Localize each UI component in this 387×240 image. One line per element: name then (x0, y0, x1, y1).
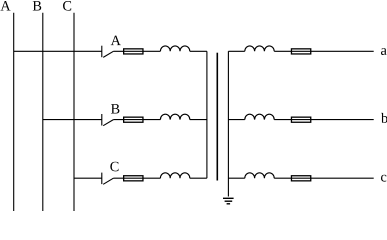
switch A blade (103, 51, 113, 57)
inductor L-b secondary winding (245, 114, 274, 119)
wire: vertical supply bus B (42, 13, 44, 211)
wire: inductor a to terminal (through fuse) (274, 50, 374, 52)
fuse F-a secondary (291, 49, 310, 54)
ground (223, 198, 234, 204)
wire: inductor b to terminal (through fuse) (274, 119, 374, 121)
wire: inductor c to terminal (through fuse) (274, 177, 374, 179)
switch B fixed contact tick (101, 114, 103, 126)
wire: secondary star-point bus (227, 51, 229, 196)
wire: switch C to inductor (through fuse) (113, 177, 160, 179)
switch B label (111, 104, 119, 113)
wire: vertical supply bus A (13, 13, 15, 211)
wire: secondary bus to inductor a (228, 50, 244, 52)
fuse F-A primary (124, 49, 143, 54)
node B supply bus label (33, 1, 41, 10)
wire: switch A to inductor (through fuse) (113, 50, 160, 52)
switch B blade (103, 120, 113, 126)
inductor L-c secondary winding (245, 173, 274, 178)
node a terminal label (381, 48, 387, 55)
wire: primary star-point bus (206, 51, 208, 178)
inductor L-C primary winding (160, 173, 189, 178)
transformer T1 core bar (216, 53, 218, 181)
wire: phase C branch from bus to switch (74, 177, 102, 179)
inductor L-B primary winding (160, 114, 189, 119)
wire: phase A branch from bus to switch (14, 50, 102, 52)
wire: inductor A to primary star point (190, 50, 207, 52)
switch A fixed contact tick (101, 46, 103, 58)
inductor L-A primary winding (160, 46, 189, 51)
wire: secondary bus to inductor b (228, 119, 244, 121)
fuse F-c secondary (291, 176, 310, 181)
wire: switch B to inductor (through fuse) (113, 119, 160, 121)
node A supply bus label (0, 1, 10, 10)
switch C blade (103, 178, 113, 184)
fuse F-C primary (124, 176, 143, 181)
node C supply bus label (63, 1, 71, 11)
node c terminal label (381, 175, 386, 182)
wire: secondary bus to inductor c (228, 177, 244, 179)
inductor L-a secondary winding (245, 46, 274, 51)
wire: inductor C to primary star point (190, 177, 207, 179)
wire: phase B branch from bus to switch (43, 119, 102, 121)
wire: inductor B to primary star point (190, 119, 207, 121)
switch C fixed contact tick (101, 173, 103, 185)
switch C label (110, 162, 118, 172)
switch A label (111, 36, 121, 45)
fuse F-b secondary (291, 117, 310, 122)
node b terminal label (381, 113, 387, 123)
wire: vertical supply bus C (73, 13, 75, 211)
fuse F-B primary (124, 117, 143, 122)
